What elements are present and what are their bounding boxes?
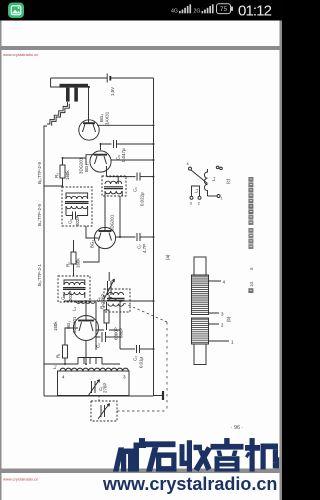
svg-text:L₃: L₃ — [194, 189, 199, 193]
svg-text:B₅:TTF-2-9: B₅:TTF-2-9 — [37, 162, 42, 184]
svg-text:(c): (c) — [226, 178, 231, 184]
svg-text:R₁: R₁ — [56, 353, 61, 358]
svg-text:0.047μ: 0.047μ — [121, 148, 126, 162]
svg-text:www.crystalradio.cn: www.crystalradio.cn — [3, 52, 38, 57]
svg-text:www.crystalradio.cn: www.crystalradio.cn — [3, 477, 38, 482]
svg-text:BG₁: BG₁ — [66, 321, 71, 329]
svg-text:2: 2 — [198, 202, 200, 206]
svg-text:C₂: C₂ — [96, 343, 101, 348]
svg-text:R₅: R₅ — [100, 304, 105, 309]
svg-text:203P: 203P — [68, 291, 73, 301]
svg-text:C₈: C₈ — [68, 219, 73, 224]
svg-text:3AX31: 3AX31 — [105, 111, 110, 125]
svg-text:C₉: C₉ — [116, 155, 121, 160]
svg-text:5: 5 — [249, 267, 254, 270]
svg-text:160k: 160k — [76, 258, 81, 268]
svg-text:BG₂: BG₂ — [90, 240, 95, 248]
svg-text:4G: 4G — [171, 8, 178, 14]
svg-text:C₃: C₃ — [133, 356, 138, 361]
svg-text:R₃: R₃ — [54, 173, 59, 178]
svg-text:B₄:TTF-2-9: B₄:TTF-2-9 — [37, 204, 42, 226]
svg-text:10.: 10. — [249, 281, 254, 287]
svg-text:3DG201: 3DG201 — [79, 157, 84, 174]
svg-text:01:12: 01:12 — [238, 3, 272, 20]
svg-text:2G: 2G — [194, 8, 201, 14]
svg-text:202P: 202P — [75, 216, 80, 226]
svg-text:3DG201: 3DG201 — [110, 214, 115, 231]
svg-text:C₅: C₅ — [133, 187, 138, 192]
svg-text:75: 75 — [220, 6, 228, 13]
svg-text:· 96 ·: · 96 · — [231, 425, 244, 431]
svg-text:C₄: C₄ — [61, 295, 66, 300]
svg-text:1.5V: 1.5V — [110, 87, 115, 96]
svg-text:L₄: L₄ — [211, 177, 216, 181]
svg-text:C₇: C₇ — [137, 244, 142, 249]
svg-text:L₁: L₁ — [52, 365, 57, 369]
svg-text:270P: 270P — [103, 383, 108, 393]
svg-text:L₂: L₂ — [72, 307, 77, 311]
svg-text:3DG201: 3DG201 — [72, 316, 77, 333]
svg-text:0.022μ: 0.022μ — [140, 192, 145, 206]
svg-text:1: 1 — [221, 197, 223, 201]
svg-text:4: 4 — [187, 162, 189, 166]
svg-text:R₂: R₂ — [66, 262, 71, 267]
svg-text:B₃:TTF-2-1: B₃:TTF-2-1 — [37, 264, 42, 286]
svg-text:(b): (b) — [226, 316, 231, 322]
svg-text:3: 3 — [190, 202, 192, 206]
svg-text:680P: 680P — [119, 328, 124, 338]
svg-text:160k: 160k — [53, 321, 58, 331]
svg-text:(a): (a) — [165, 254, 170, 260]
svg-text:www.crystalradio.cn: www.crystalradio.cn — [102, 474, 277, 494]
svg-text:4.7P: 4.7P — [142, 244, 147, 253]
svg-text:160k: 160k — [65, 170, 70, 180]
svg-text:BG₄: BG₄ — [99, 114, 104, 122]
svg-text:0.01μ: 0.01μ — [139, 356, 144, 368]
svg-text:270P: 270P — [101, 294, 106, 304]
svg-text:BG₃: BG₃ — [84, 164, 89, 172]
